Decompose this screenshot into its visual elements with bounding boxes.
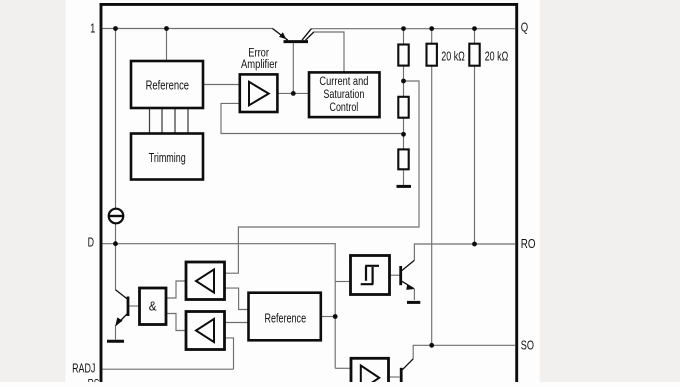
wire: rail to 20k no1 [431, 29, 433, 44]
svg-text:Saturation: Saturation [323, 88, 364, 102]
wire: Q4 base lead [389, 376, 400, 378]
svg-text:Reference: Reference [265, 312, 307, 326]
transistor Q4 (clipped) [401, 359, 413, 382]
wire: Q2 emitter lead [115, 325, 117, 340]
wire: Q1 collector2 to CSC [314, 32, 345, 72]
wire: vertical to theta [115, 29, 117, 209]
wire: top rail left [103, 28, 274, 30]
svg-text:20 kΩ: 20 kΩ [485, 50, 509, 64]
node: pin1/theta branch [113, 26, 118, 31]
wire: Q2 collector lead [115, 244, 117, 290]
reference box (top) [131, 61, 203, 108]
wire: 20k no2 to RO node [474, 66, 476, 244]
current and saturation control box [309, 72, 380, 117]
svg-text:20 kΩ: 20 kΩ [441, 50, 465, 64]
wire: RADJ rail [103, 368, 234, 370]
node: rail-resistor chain [401, 26, 406, 31]
resistor RA [398, 45, 408, 66]
wire: schmitt output to Q3 base [390, 274, 400, 276]
svg-text:SO: SO [521, 339, 535, 353]
buffer B2 (lower) [186, 312, 225, 350]
node: rail-20k no1 [429, 26, 434, 31]
resistor RC [398, 149, 408, 169]
resistor 20k no2 [469, 44, 508, 66]
wire: lower buffer out to AND [166, 314, 186, 331]
wire: bus to schmitt input [335, 281, 350, 283]
svg-text:Control: Control [330, 101, 359, 115]
AND gate [140, 288, 167, 325]
wire: divider tap to upper buffer [225, 81, 420, 273]
reference box (bottom) [249, 293, 321, 341]
trimming box [131, 134, 203, 180]
wire: RB to RC [403, 118, 405, 150]
wire: reference2 output [321, 316, 335, 318]
resistor RB [398, 97, 408, 118]
ground (resistor chain) [397, 185, 412, 188]
border frame [100, 3, 518, 382]
svg-text:1: 1 [90, 22, 95, 36]
buffer B1 (upper) [186, 262, 225, 300]
svg-text:RO: RO [521, 238, 536, 251]
wire: Q3 emitter drop [413, 289, 415, 300]
svg-text:RADJ: RADJ [72, 362, 95, 376]
wire: feedback to divider tap [221, 103, 404, 133]
svg-text:Reference: Reference [146, 79, 189, 93]
svg-text:RS: RS [88, 378, 100, 382]
node: divider tap A [401, 79, 406, 84]
schmitt trigger box [351, 256, 390, 295]
wire: upper buffer out to AND [166, 281, 186, 298]
wire: D rail [103, 243, 336, 245]
wire: top rail right [311, 28, 515, 30]
ground (Q2 emitter) [107, 340, 124, 343]
node: reference2 output [333, 314, 338, 319]
driver box (bottom, clipped) [351, 358, 389, 387]
svg-text:D: D [88, 236, 95, 250]
wire: reference-trimming ties [150, 108, 189, 134]
wire: reference to error amp [203, 84, 240, 86]
wire: Q2 base lead [130, 305, 140, 307]
node: D rail branch [113, 241, 118, 246]
op-amp U1 error amplifier [240, 74, 278, 112]
node: SO rail [429, 343, 434, 348]
transistor Q2 [115, 290, 128, 327]
wire: to reference top [166, 29, 168, 62]
wire: upper buffer input2 to reference2 [225, 288, 249, 309]
wire: RA to RB [403, 66, 405, 97]
transistor Q1 [273, 29, 314, 42]
wire: lower buffer input2 to RADJ [225, 338, 234, 369]
wire: RC to ground [403, 169, 405, 185]
node: reference branch [164, 26, 169, 31]
wire: lower buffer input1 to reference2 [225, 322, 249, 324]
resistor 20k no1 [427, 44, 465, 66]
node: rail-20k no2 [472, 26, 477, 31]
error amplifier label [241, 46, 278, 71]
ground (Q3 emitter) [407, 301, 420, 304]
node: error amp output [291, 91, 296, 96]
wire: SO rail [413, 345, 515, 359]
wire: Q3 collector riser [414, 244, 515, 260]
svg-text:Current and: Current and [319, 75, 368, 88]
wire: 20k no1 to SO node [431, 66, 433, 346]
node: divider tap B [401, 132, 406, 137]
wire: bus to driver input [335, 367, 351, 369]
wire: theta to D rail [115, 224, 117, 244]
wire: error amp output [277, 92, 309, 94]
svg-text:Amplifier: Amplifier [241, 58, 278, 71]
wire: Q1 base lead [292, 43, 294, 93]
wire: node bus vertical [334, 244, 336, 369]
thermal sensor symbol [108, 209, 124, 224]
svg-text:&: & [149, 299, 157, 314]
svg-text:Q: Q [521, 21, 529, 35]
node: RO rail [472, 242, 477, 247]
wire: rail to 20k no2 [474, 29, 476, 44]
wire: rail to RA [403, 29, 405, 45]
svg-text:Trimming: Trimming [149, 152, 186, 166]
transistor Q3 [401, 260, 415, 290]
